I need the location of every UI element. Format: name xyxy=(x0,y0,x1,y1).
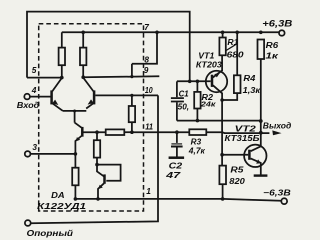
junction RH right xyxy=(130,130,134,134)
svg-text:1к: 1к xyxy=(265,52,279,61)
svg-text:C1: C1 xyxy=(179,89,190,98)
svg-text:КТ315Б: КТ315Б xyxy=(225,134,260,143)
terminal +6,3V xyxy=(279,30,285,36)
wire feedback C1 R2 to output xyxy=(177,120,261,122)
wire pin 4 base T1 xyxy=(30,96,51,98)
resistor R2 xyxy=(196,81,198,92)
svg-text:К122УД1: К122УД1 xyxy=(37,201,86,211)
junction RV1 bottom xyxy=(74,197,78,201)
junction pin3 tail xyxy=(74,152,78,156)
svg-text:5: 5 xyxy=(32,65,37,75)
junction collector T2 xyxy=(81,75,85,79)
resistor R5 xyxy=(221,155,223,166)
svg-text:10: 10 xyxy=(145,85,153,95)
wire R6 to VT2 collector xyxy=(260,59,262,146)
terminal -6,3V xyxy=(281,198,287,204)
svg-text:7: 7 xyxy=(144,22,149,32)
svg-text:8: 8 xyxy=(144,54,149,64)
terminal Oporny xyxy=(25,220,31,226)
wire +6.3V rail xyxy=(62,31,279,33)
wire reference bus vertical xyxy=(31,95,158,223)
capacitor C2 xyxy=(175,130,179,134)
resistor RH internal horizontal xyxy=(106,129,125,135)
junction output tap xyxy=(259,131,263,135)
wire pin 10 base T2 xyxy=(95,94,158,96)
junction collector T1 xyxy=(60,76,64,80)
junction loop to VT1 base xyxy=(188,80,192,84)
transistor T1 left of diff pair xyxy=(50,90,53,104)
svg-text:1,3к: 1,3к xyxy=(243,86,262,95)
junction feedback at output xyxy=(259,119,263,123)
R1 adjust stroke xyxy=(226,45,235,51)
transistor T3 tail current source xyxy=(75,123,82,128)
svg-text:R4: R4 xyxy=(243,74,256,83)
wire VT1 base xyxy=(177,80,211,82)
junction T4 emitter bottom xyxy=(96,197,100,201)
svg-text:Вход: Вход xyxy=(17,100,40,110)
wire VT2 base xyxy=(222,154,248,156)
wire emitters join xyxy=(63,111,86,123)
svg-text:DA: DA xyxy=(51,191,65,200)
resistor RV3 internal right xyxy=(131,95,133,106)
output arrow xyxy=(272,130,281,135)
resistor R4 xyxy=(236,32,238,75)
svg-text:C2: C2 xyxy=(169,162,183,171)
wire pin 3 xyxy=(31,153,76,155)
svg-text:+6,3В: +6,3В xyxy=(262,19,293,29)
svg-text:9: 9 xyxy=(144,65,149,75)
svg-text:680: 680 xyxy=(227,51,245,60)
resistor R6 xyxy=(259,31,263,35)
junction emitter tap xyxy=(73,110,76,113)
junction T4 node xyxy=(95,163,99,167)
svg-text:47: 47 xyxy=(165,171,181,180)
svg-text:R6: R6 xyxy=(266,41,279,50)
resistor RL2 internal right load xyxy=(82,32,84,47)
resistor RV2 internal middle xyxy=(96,132,98,140)
svg-text:24к: 24к xyxy=(200,99,217,108)
svg-text:R3: R3 xyxy=(191,137,202,146)
svg-text:Выход: Выход xyxy=(263,122,292,131)
resistor R1 xyxy=(219,38,225,56)
junction RL2 top xyxy=(81,31,85,35)
junction VT2 base R5 xyxy=(220,153,224,157)
svg-text:3: 3 xyxy=(32,142,37,152)
svg-text:R5: R5 xyxy=(230,166,244,175)
wire pin 5 xyxy=(27,77,62,79)
svg-text:4: 4 xyxy=(31,85,37,95)
svg-text:4,7к: 4,7к xyxy=(188,147,206,156)
svg-text:VT2: VT2 xyxy=(235,125,257,134)
wire pin 8 jumper xyxy=(132,32,157,64)
svg-text:−6,3В: −6,3В xyxy=(263,188,291,198)
wire feedback loop pin5 to VT1 base xyxy=(27,12,190,82)
capacitor C1 xyxy=(176,81,178,97)
svg-text:11: 11 xyxy=(145,121,153,131)
transistor T4 diode connected xyxy=(97,165,121,181)
svg-text:1: 1 xyxy=(146,186,151,196)
transistor VT1 xyxy=(206,71,227,92)
wire internal pin8 branch xyxy=(131,64,133,77)
svg-text:820: 820 xyxy=(229,177,245,186)
svg-text:50,: 50, xyxy=(178,103,190,112)
terminal Vhod input xyxy=(24,94,30,100)
wire bottom rail pin 1 to -6.3V xyxy=(75,199,281,201)
transistor VT2 xyxy=(244,145,266,167)
IC dashed box DA xyxy=(39,24,144,211)
transistor T2 right of diff pair xyxy=(93,90,96,104)
wire pin 9 stub xyxy=(83,75,159,78)
svg-text:КТ203: КТ203 xyxy=(196,60,223,69)
ground bar VT2 emitter xyxy=(254,174,268,176)
resistor R3 xyxy=(189,129,206,135)
junction tail base node xyxy=(95,130,99,134)
resistor RL1 internal left load xyxy=(61,32,63,47)
wire pin 11 line to output arrow xyxy=(132,131,270,134)
svg-text:Опорный: Опорный xyxy=(27,228,74,238)
terminal pin 3 xyxy=(25,151,31,157)
resistor RV1 internal bottom-left xyxy=(72,168,78,186)
